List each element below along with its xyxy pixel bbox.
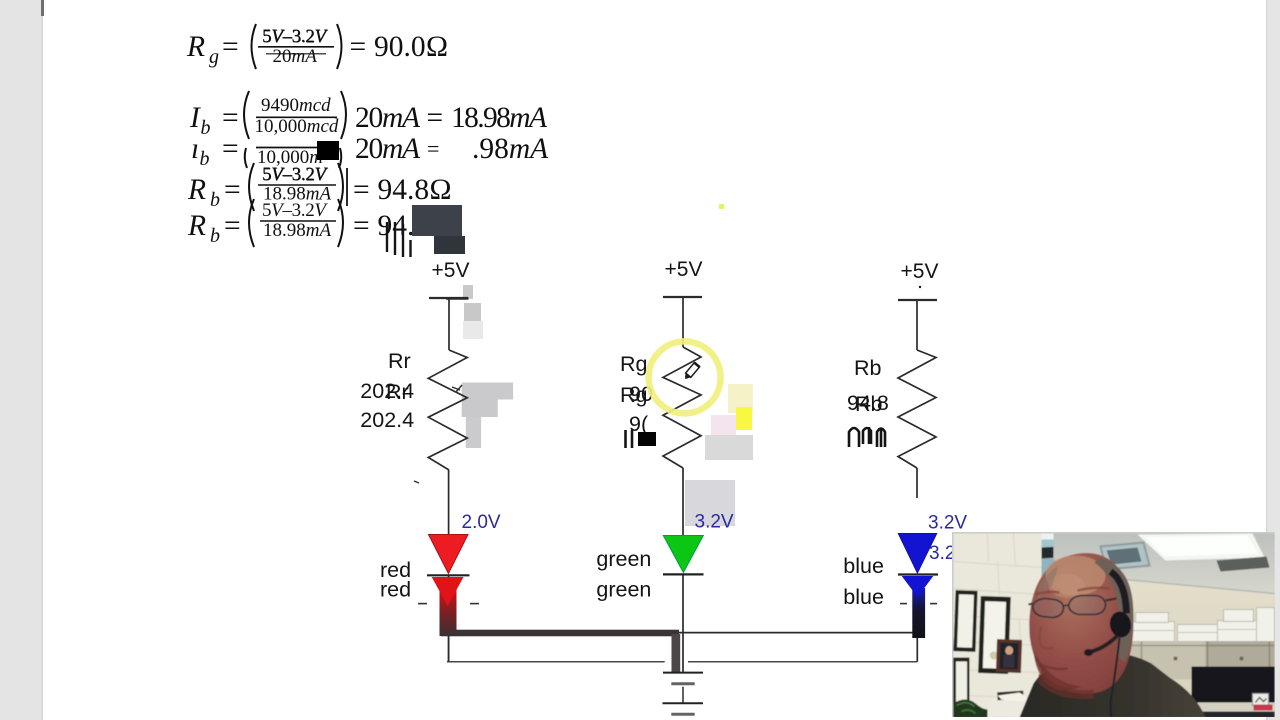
- svg-text:Rr: Rr: [386, 380, 409, 404]
- dark object and white box bottom left: [997, 691, 1024, 703]
- svg-text:90.0Ω: 90.0Ω: [374, 31, 448, 63]
- svg-text:=: =: [350, 31, 367, 63]
- ground bus wire upper: [449, 632, 918, 634]
- certificate frame A: [953, 590, 977, 652]
- svg-text:3.2V: 3.2V: [928, 513, 967, 534]
- person shirt: [1020, 652, 1206, 717]
- wire through red LED to bus: [448, 575, 450, 662]
- webcam overlay: [952, 532, 1275, 717]
- eyebrow shadow: [1036, 588, 1110, 595]
- small white photo on desk: [1253, 694, 1269, 706]
- svg-text:red: red: [380, 578, 411, 602]
- svg-text:202.4: 202.4: [360, 408, 414, 432]
- mic boom: [1092, 636, 1118, 652]
- svg-text:10,000mcd: 10,000mcd: [255, 116, 339, 137]
- equation Rg = (5V-3.2V/20mA) = 90.0 ohm: [186, 24, 448, 69]
- svg-text:=: =: [427, 136, 439, 161]
- svg-text:3.2V: 3.2V: [695, 512, 734, 533]
- ghost blue LED: [902, 576, 934, 597]
- svg-text:=: =: [353, 210, 370, 242]
- headset ear cup: [1108, 610, 1133, 639]
- artifact block near Rg ghost value: [638, 432, 656, 446]
- LED D1 red: [418, 535, 479, 607]
- svg-text:b: b: [200, 148, 210, 170]
- svg-text:20mA: 20mA: [355, 102, 421, 134]
- wire stub below resistor Rb: [916, 468, 918, 498]
- annotation cursor: yellow highlight circle: [649, 341, 721, 413]
- svg-text:9490mcd: 9490mcd: [261, 95, 331, 116]
- window behind person: [1042, 534, 1117, 578]
- video artifact dark blocks: [412, 205, 462, 236]
- bus joint wire right: [916, 633, 918, 662]
- gray compression smudges near branch 1: [462, 285, 513, 448]
- certificate frame B: [978, 596, 1011, 674]
- svg-text:+5V: +5V: [665, 258, 703, 281]
- svg-text:5V–3.2V: 5V–3.2V: [262, 27, 328, 48]
- svg-text:blue: blue: [843, 585, 884, 609]
- svg-text:Rg: Rg: [620, 383, 647, 407]
- hair back/side: [1095, 558, 1134, 663]
- svg-text:18.98mA: 18.98mA: [263, 220, 331, 241]
- svg-text:5V–3.2V: 5V–3.2V: [262, 165, 328, 186]
- svg-text:R: R: [186, 31, 205, 63]
- svg-text:blue: blue: [843, 554, 884, 578]
- svg-text:=: =: [222, 31, 239, 63]
- svg-text:.98mA: .98mA: [472, 133, 549, 165]
- gray smudge above green 3.2V label: [685, 480, 735, 526]
- svg-text:=: =: [224, 174, 241, 206]
- neck: [1058, 638, 1094, 659]
- ceiling light panel: [1138, 534, 1265, 561]
- svg-text:green: green: [596, 547, 651, 571]
- resistor Rr: [428, 350, 467, 470]
- svg-text:green: green: [596, 578, 651, 602]
- right page margin strip: [1268, 0, 1280, 720]
- svg-text:Rg: Rg: [620, 352, 647, 376]
- svg-text:b: b: [210, 189, 220, 211]
- wire: resistor Rr to LED red: [448, 470, 450, 535]
- svg-text:94.8Ω: 94.8Ω: [378, 174, 452, 206]
- bus joint wire left: [448, 633, 450, 662]
- svg-text:=: =: [427, 102, 444, 134]
- wire: rail to resistor Rb: [916, 300, 918, 350]
- crown highlight: [1046, 556, 1106, 596]
- window with foliage behind person lower: [1042, 634, 1062, 672]
- blue LED ghost smear trunk: [912, 588, 925, 638]
- wall corner line: [1041, 578, 1043, 664]
- svg-text:b: b: [201, 117, 211, 139]
- thick smear over upper bus wire: [441, 630, 679, 637]
- svg-text:+5V: +5V: [432, 259, 470, 282]
- left brick wall: [954, 534, 1042, 718]
- desk monitor dark: [1192, 667, 1275, 718]
- svg-text:20mA: 20mA: [273, 46, 318, 67]
- center smear joining bus to battery: [672, 634, 681, 673]
- svg-text:+5V: +5V: [901, 260, 939, 283]
- LED D3 blue: [898, 534, 938, 604]
- ghost duplicate of Rb equation: [187, 199, 429, 247]
- svg-text:Rb: Rb: [855, 392, 883, 416]
- svg-text:20mA: 20mA: [355, 133, 421, 165]
- headset cord: [1111, 638, 1120, 718]
- svg-text:18.98mA: 18.98mA: [451, 102, 548, 134]
- LED D2 green: [663, 536, 704, 575]
- svg-text:=: =: [222, 102, 239, 134]
- wire: rail to resistor Rg: [682, 297, 684, 347]
- svg-text:Rr: Rr: [388, 349, 411, 373]
- glasses: [1029, 596, 1117, 618]
- portrait frame: [996, 639, 1022, 673]
- svg-text:I: I: [189, 102, 201, 134]
- wire: rail to resistor Rr: [448, 298, 450, 350]
- certificate frame C: [954, 658, 970, 708]
- battery B1: [663, 673, 704, 715]
- ceiling: [1054, 534, 1275, 594]
- top-left dark edge mark: [41, 0, 44, 16]
- ghost duplicate of Ib equation: [191, 133, 549, 170]
- svg-text:=: =: [224, 210, 241, 242]
- wire: resistor Rg to LED green: [682, 468, 684, 535]
- svg-text:5V–3.2V: 5V–3.2V: [262, 200, 328, 221]
- svg-text:=: =: [222, 133, 239, 165]
- ghost scribble near resistor Rr: [452, 385, 462, 392]
- stacked white boxes on cabinets: [1076, 608, 1275, 642]
- resistor Rg: [663, 347, 701, 468]
- tiny yellow dot artifact: [719, 204, 724, 209]
- green cables bottom left: [954, 700, 990, 718]
- annotation cursor: pencil icon: [682, 363, 699, 382]
- ghost Rb value arch artifacts: [849, 427, 885, 447]
- wire: LED green to battery: [682, 574, 684, 672]
- svg-text:Rb: Rb: [854, 356, 882, 380]
- svg-text:2.0V: 2.0V: [462, 512, 501, 533]
- ghost red LED: [432, 577, 464, 606]
- +5V rail bar branch 3: [898, 299, 937, 301]
- ground bus wire lower (ghost): [447, 661, 917, 663]
- nose/mouth shadow: [1040, 627, 1054, 649]
- left page margin strip: [0, 0, 42, 720]
- red object on desk: [1254, 705, 1273, 711]
- headset band: [1111, 572, 1127, 614]
- red LED ghost smear trunk: [440, 589, 457, 636]
- equation Ib = (9490mcd/10,000mcd)20mA = 18.98mA: [189, 91, 548, 139]
- svg-text:b: b: [210, 225, 220, 247]
- ceiling vent dark: [1217, 557, 1270, 572]
- face shading lower: [1034, 652, 1082, 691]
- yellow/pink smudges right of Rg resistor: [728, 384, 753, 413]
- collar shadow: [1052, 657, 1098, 678]
- skylight frame: [1101, 543, 1150, 570]
- svg-text:=: =: [353, 174, 370, 206]
- svg-text:ı: ı: [191, 133, 199, 165]
- ghost tick below resistor Rr: [414, 481, 419, 483]
- head: [1029, 553, 1133, 694]
- svg-text:g: g: [209, 46, 219, 68]
- cabinets: [1074, 642, 1275, 680]
- room back wall: [954, 534, 1275, 718]
- svg-text:R: R: [187, 174, 206, 206]
- +5V rail bar branch 2: [663, 296, 702, 298]
- resistor Rb: [898, 350, 936, 468]
- equation Rb = (5V-3.2V/18.98mA) = 94.8 ohm: [187, 163, 452, 211]
- svg-text:R: R: [187, 210, 206, 242]
- +5V rail bar branch 1: [429, 297, 468, 299]
